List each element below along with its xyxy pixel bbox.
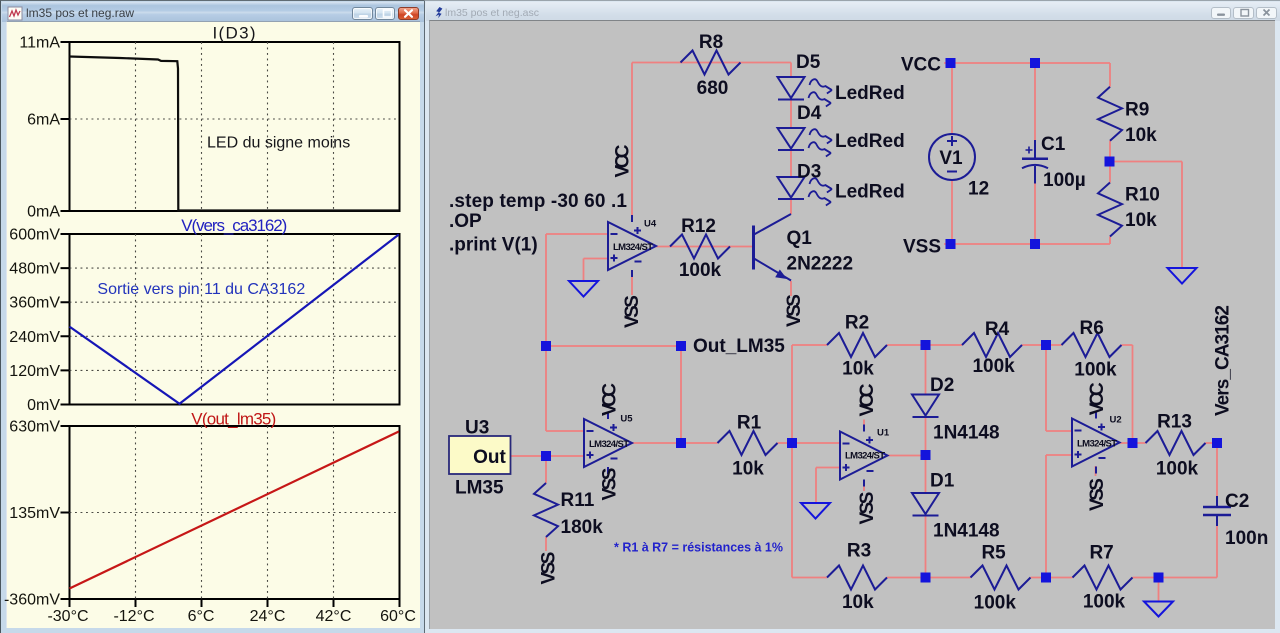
svg-text:R11: R11 [561,490,595,511]
svg-text:R3: R3 [847,541,871,562]
svg-text:C2: C2 [1225,491,1249,512]
svg-text:V(vers_ca3162): V(vers_ca3162) [181,216,287,235]
svg-text:U2: U2 [1110,415,1122,426]
svg-text:100µ: 100µ [1043,170,1086,191]
svg-text:100k: 100k [1083,592,1126,613]
svg-text:Q1: Q1 [787,228,813,249]
svg-text:240mV: 240mV [9,329,60,346]
svg-text:180k: 180k [561,517,604,538]
svg-text:11mA: 11mA [19,35,60,52]
svg-text:100k: 100k [974,593,1017,614]
svg-text:360mV: 360mV [9,295,60,312]
svg-text:U1: U1 [877,428,890,439]
svg-text:100k: 100k [679,260,722,281]
svg-text:LM35: LM35 [455,478,504,499]
svg-text:VSS: VSS [622,295,643,328]
svg-text:Vers_CA3162: Vers_CA3162 [1213,305,1234,416]
svg-text:100k: 100k [972,356,1015,377]
svg-text:D2: D2 [930,375,954,396]
svg-text:VSS: VSS [903,237,941,258]
svg-text:U4: U4 [644,219,657,230]
svg-text:R6: R6 [1080,318,1104,339]
svg-text:42°C: 42°C [316,608,352,625]
svg-text:135mV: 135mV [9,505,60,522]
svg-text:LM324/ST: LM324/ST [1077,439,1117,450]
svg-text:100k: 100k [1074,360,1117,381]
svg-text:120mV: 120mV [9,363,60,380]
svg-text:1N4148: 1N4148 [933,423,1000,444]
svg-text:2N2222: 2N2222 [787,254,854,275]
svg-text:VCC: VCC [1087,382,1108,415]
svg-text:10k: 10k [1125,210,1157,231]
svg-text:LM324/ST: LM324/ST [613,242,653,253]
svg-text:.print V(1): .print V(1) [449,235,538,256]
svg-text:60°C: 60°C [380,608,416,625]
svg-text:-12°C: -12°C [113,608,154,625]
svg-text:LedRed: LedRed [835,182,905,203]
svg-text:VCC: VCC [857,383,878,416]
svg-text:D1: D1 [930,471,955,492]
svg-text:.step temp -30 60 .1: .step temp -30 60 .1 [449,191,627,212]
svg-text:680: 680 [697,78,729,99]
svg-text:VSS: VSS [1087,478,1108,511]
svg-text:6mA: 6mA [27,112,60,129]
svg-text:V(out_lm35): V(out_lm35) [191,410,276,429]
svg-text:0mA: 0mA [27,204,60,221]
svg-text:.OP: .OP [449,211,482,232]
svg-text:R10: R10 [1125,185,1160,206]
svg-text:D3: D3 [797,162,821,183]
svg-text:VSS: VSS [784,294,805,327]
svg-text:LM324/ST: LM324/ST [845,451,885,462]
svg-text:480mV: 480mV [9,261,60,278]
svg-text:R2: R2 [845,313,869,334]
svg-text:VCC: VCC [600,383,621,416]
svg-text:R5: R5 [981,543,1006,564]
svg-text:R8: R8 [699,32,723,53]
svg-text:100k: 100k [1156,459,1199,480]
svg-text:1N4148: 1N4148 [933,521,1000,542]
svg-text:V1: V1 [939,148,963,169]
svg-text:R7: R7 [1089,543,1113,564]
svg-text:U5: U5 [620,414,633,425]
svg-text:100n: 100n [1225,528,1268,549]
svg-text:VSS: VSS [857,492,878,525]
svg-text:VCC: VCC [901,55,941,76]
svg-text:VSS: VSS [600,468,621,501]
svg-text:R13: R13 [1157,412,1192,433]
svg-text:10k: 10k [842,592,874,613]
svg-text:R4: R4 [985,319,1010,340]
svg-text:LedRed: LedRed [835,83,905,104]
svg-text:R9: R9 [1125,100,1149,121]
svg-text:D5: D5 [796,52,821,73]
svg-text:R1: R1 [737,413,762,434]
svg-text:I(D3): I(D3) [213,24,256,43]
svg-text:12: 12 [968,179,989,200]
svg-text:630mV: 630mV [9,419,60,436]
svg-text:LED du signe moins: LED du signe moins [207,135,350,152]
svg-text:24°C: 24°C [250,608,286,625]
svg-text:R12: R12 [681,216,716,237]
svg-text:10k: 10k [1125,125,1157,146]
svg-text:VCC: VCC [613,144,634,177]
svg-text:D4: D4 [797,103,822,124]
svg-text:Out_LM35: Out_LM35 [693,336,785,357]
svg-text:-360mV: -360mV [4,592,60,609]
svg-text:-30°C: -30°C [47,608,88,625]
svg-text:Out: Out [473,447,506,468]
svg-text:600mV: 600mV [9,227,60,244]
svg-text:LM324/ST: LM324/ST [589,439,629,450]
svg-text:Sortie vers pin 11 du CA3162: Sortie vers pin 11 du CA3162 [97,281,305,298]
svg-text:* R1 à R7 = résistances à 1%: * R1 à R7 = résistances à 1% [614,541,783,555]
svg-text:C1: C1 [1041,134,1066,155]
svg-text:LedRed: LedRed [835,131,905,152]
svg-text:10k: 10k [842,359,874,380]
svg-text:10k: 10k [732,459,764,480]
svg-text:6°C: 6°C [188,608,215,625]
svg-text:0mV: 0mV [27,397,60,414]
svg-text:VSS: VSS [539,552,560,585]
